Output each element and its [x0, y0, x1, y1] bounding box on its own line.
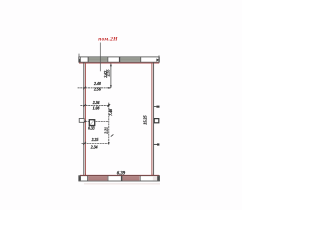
- svg-text:2.48: 2.48: [93, 82, 101, 86]
- left wall: [84, 63, 86, 176]
- svg-text:1.08: 1.08: [93, 107, 100, 111]
- right wall: [152, 63, 154, 176]
- dashed line through column 0.33: [80, 121, 109, 124]
- svg-text:7.46: 7.46: [109, 109, 113, 116]
- svg-text:6.39: 6.39: [117, 171, 126, 176]
- right wall mark: dash and filled box upper: [154, 106, 160, 108]
- svg-text:2.36: 2.36: [92, 101, 100, 105]
- svg-text:2.34: 2.34: [90, 145, 98, 149]
- room label пом.2Н: [98, 37, 118, 43]
- svg-text:2.62: 2.62: [104, 71, 108, 79]
- dimension 2.55/2.62 vertical with arrows: [104, 64, 112, 88]
- right wall mark: open square: [154, 119, 159, 123]
- bottom wall band: [79, 176, 160, 181]
- bottom wall inner red face: [80, 174, 159, 176]
- scan shadow under bottom wall: [84, 183, 160, 185]
- dimension 15.25 vertical text: [143, 115, 148, 124]
- vertical reference line 7.46/2.21: [105, 103, 114, 145]
- wall pilaster left: [79, 119, 84, 123]
- dimension 2.36/1.08 horizontal: [80, 101, 110, 110]
- top wall end ticks: [79, 54, 159, 57]
- svg-text:пом.2Н: пом.2Н: [98, 37, 118, 43]
- leader line from label: [99, 43, 101, 72]
- dimension 6.39: [117, 171, 126, 176]
- dimension 2.25/2.34 horizontal: [82, 138, 109, 150]
- svg-text:2.21: 2.21: [105, 127, 109, 135]
- right wall mark: dash and filled box lower: [153, 143, 159, 145]
- top wall inner red face: [79, 62, 159, 64]
- svg-text:0.33: 0.33: [88, 126, 95, 130]
- svg-text:2.25: 2.25: [91, 138, 99, 142]
- column 0.33: [88, 120, 95, 131]
- dimension 2.48/2.56 horizontal: [78, 82, 111, 91]
- bottom wall face ticks: [86, 174, 153, 176]
- svg-text:15.25: 15.25: [143, 115, 148, 124]
- top wall band: [79, 57, 160, 62]
